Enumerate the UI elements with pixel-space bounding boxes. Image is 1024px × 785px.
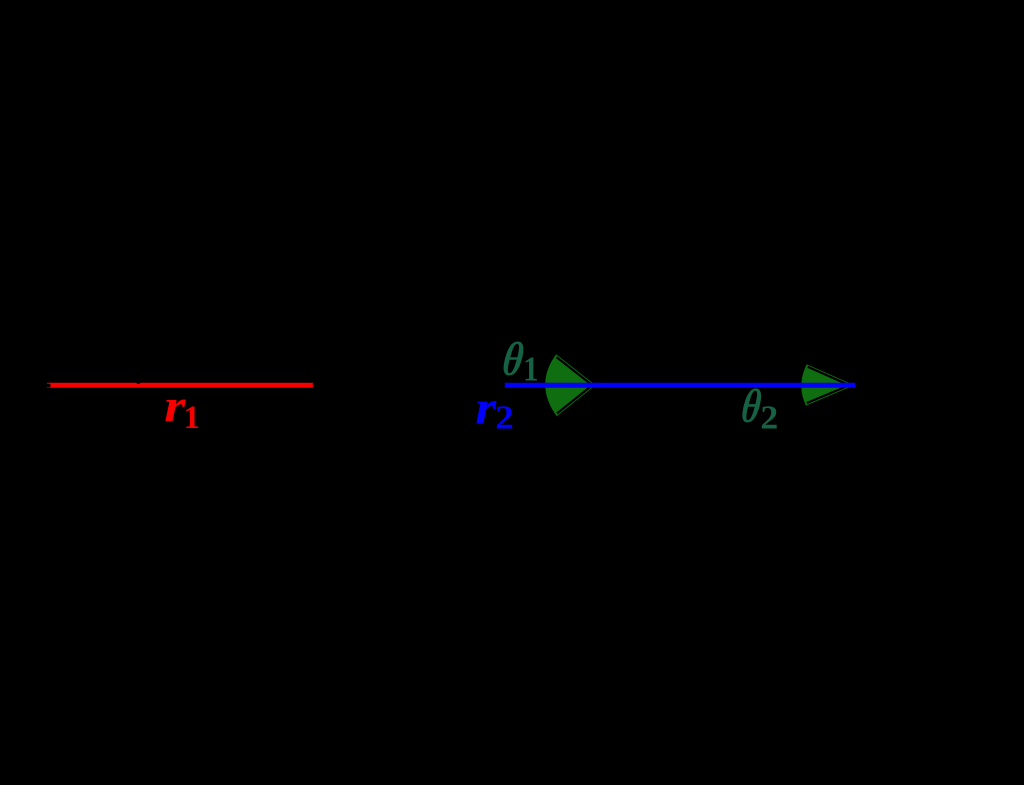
black bite at r1 left tip [47,384,51,388]
cone arrowhead of angle theta2 [801,364,854,405]
cone arrowhead of angle theta1 [545,354,595,416]
svg-text:2: 2 [760,400,778,437]
svg-text:2: 2 [495,398,514,436]
segment r1 (red vector) [47,383,313,388]
svg-text:1: 1 [523,351,538,389]
black bite lower notch on r1 [137,388,140,391]
segment r2 (blue vector) [505,383,855,388]
svg-text:r: r [475,381,497,433]
black bite upper notch on r1 [136,380,140,384]
svg-text:r: r [164,380,186,431]
svg-text:1: 1 [184,400,200,437]
